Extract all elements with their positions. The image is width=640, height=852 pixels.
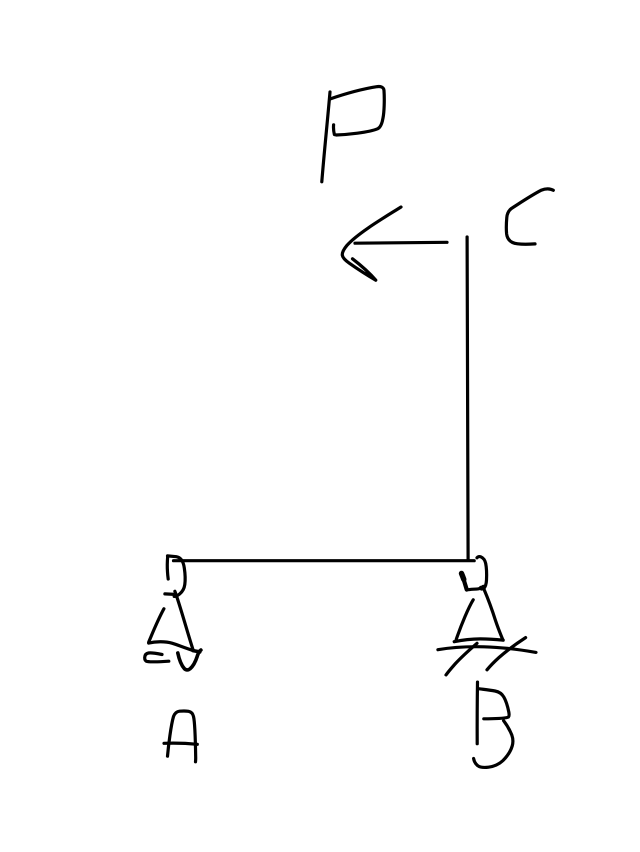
figure at B: hair stroke [461, 573, 466, 589]
figure at B: body left side [456, 600, 473, 640]
figure at A: neck stub [165, 592, 175, 596]
label B vertical [476, 682, 480, 744]
arrow head [342, 207, 401, 280]
figure at A: head [167, 556, 185, 597]
figure at B: head hook [477, 557, 487, 589]
label C [506, 189, 553, 244]
label P (flag) stem [322, 92, 330, 182]
figure at A: right boot [178, 650, 201, 670]
figure at B: neck curve [467, 587, 483, 590]
crossout horizontal line [438, 647, 536, 653]
vertical line C to B [467, 237, 468, 560]
arrow shaft [355, 241, 447, 245]
figure at A: left foot c [145, 653, 169, 662]
figure at B: body bottom [454, 639, 503, 642]
label A arch [168, 711, 196, 762]
crossout slash left [446, 643, 477, 675]
label P (flag) loop [330, 87, 384, 135]
figure at A: left body line [149, 609, 164, 642]
horizontal line A to B [174, 559, 475, 562]
crossout slash right [487, 638, 526, 670]
figure at A: body diagonal arm [175, 591, 193, 650]
label B top bump [479, 689, 509, 719]
figure at B: body right side [484, 590, 503, 640]
label A crossbar [164, 743, 197, 744]
label B bottom bump [474, 721, 513, 768]
figure at A: bottom sweep [149, 642, 194, 651]
